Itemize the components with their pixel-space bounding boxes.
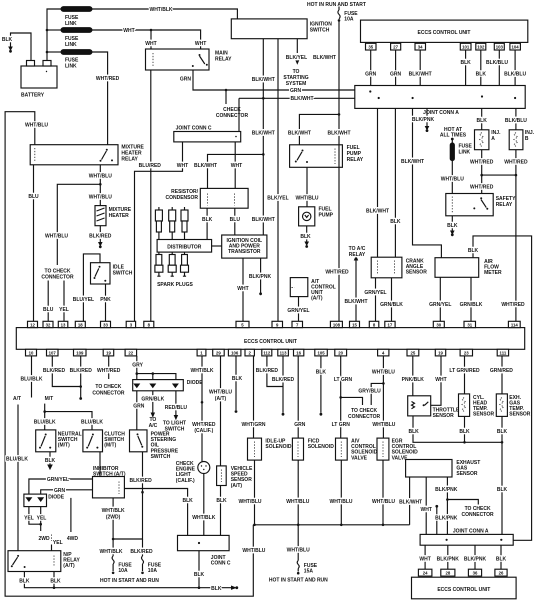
FICD solenoid box — [292, 438, 303, 460]
cyl head temp sensor box — [459, 394, 470, 417]
svg-text:WHT: WHT — [123, 28, 134, 34]
svg-text:BLU/YEL: BLU/YEL — [73, 297, 94, 303]
svg-text:WHT: WHT — [145, 41, 156, 47]
pin 3 main bar top — [126, 321, 135, 327]
svg-text:TO CHECK: TO CHECK — [44, 268, 70, 274]
svg-text:111: 111 — [500, 351, 507, 356]
pin 101 ECCS top — [460, 43, 471, 50]
exh gas temp sensor box — [496, 394, 507, 417]
diode pack 2 diodes D4 D5 — [26, 498, 43, 501]
svg-text:BLU/BLK: BLU/BLK — [81, 419, 103, 425]
fuel pump box — [299, 207, 315, 226]
A/T control unit box — [290, 278, 308, 297]
svg-text:103: 103 — [496, 45, 504, 50]
wire WHT/BLK 2WD inhibitor to fuse — [112, 498, 114, 556]
neutral switch box — [36, 430, 56, 452]
svg-text:33: 33 — [103, 322, 108, 327]
svg-text:BLK: BLK — [468, 248, 479, 254]
svg-text:JOINT CONN A: JOINT CONN A — [423, 110, 459, 116]
svg-text:CONDENSOR: CONDENSOR — [165, 195, 198, 201]
wire WHT/BLU mixture heater relay to heater — [99, 165, 101, 206]
svg-text:LINK: LINK — [65, 21, 77, 27]
wire BLK speed sensor to joint conn C lower — [220, 486, 222, 536]
svg-text:101: 101 — [462, 45, 470, 50]
idle switch box — [91, 263, 111, 284]
wire BLK joint conn A to crank sensor — [394, 108, 396, 257]
N/P relay contact — [11, 555, 26, 568]
svg-text:(M/T): (M/T) — [104, 443, 116, 449]
svg-text:108: 108 — [333, 322, 341, 327]
pin 9 main bar top — [272, 321, 283, 327]
svg-text:TO CHECK: TO CHECK — [95, 384, 121, 390]
svg-text:LT GRN: LT GRN — [334, 377, 353, 383]
svg-text:BLK: BLK — [300, 234, 311, 240]
fuse 10A symbol right — [142, 556, 144, 564]
svg-text:LT GRN: LT GRN — [332, 422, 351, 428]
pin 104 ECCS top — [510, 43, 521, 50]
neutral switch contact — [39, 434, 51, 449]
pin 34 ECCS top — [415, 43, 426, 50]
spark plug 2 — [168, 252, 176, 276]
svg-text:WHT/GRN: WHT/GRN — [242, 422, 266, 428]
node rail joint conn C — [198, 586, 201, 589]
svg-text:BLK/BLU: BLK/BLU — [505, 118, 527, 124]
svg-text:10A: 10A — [344, 16, 354, 22]
node battery riser fuse2 — [46, 29, 49, 32]
arrow to starting system — [296, 60, 299, 64]
svg-text:BLU: BLU — [28, 194, 39, 200]
pin 15 main bar top — [350, 321, 360, 327]
main relay contact — [192, 54, 208, 67]
wire WHT/BLU bus to fuse 15A — [297, 525, 299, 561]
svg-text:BLK/PNK: BLK/PNK — [412, 117, 435, 123]
svg-text:GRN: GRN — [390, 71, 402, 77]
svg-text:WHT/BLK: WHT/BLK — [190, 368, 213, 374]
pin 105 main bar bottom — [315, 349, 328, 356]
dot BLK pin 106 end — [235, 410, 238, 413]
node LT GRN branch — [339, 396, 342, 399]
wire WHT/BLU fuse link to safety relay — [451, 161, 453, 194]
wire WHT/BLK fuse link1 to ignition switch — [92, 9, 237, 19]
svg-text:BLK: BLK — [19, 578, 30, 584]
crank angle sensor box — [371, 257, 402, 278]
joint conn A lower box — [420, 534, 513, 545]
wire BLK resistor to distributor — [206, 208, 208, 239]
wire WHT/BLU AIV solenoid to bus — [340, 460, 342, 525]
svg-text:WHT/BLU: WHT/BLU — [45, 233, 68, 239]
wire GRN diode to power steering switch — [136, 391, 138, 430]
wire GRN/YEL diode2 to inhibitor — [29, 479, 93, 494]
svg-text:BLK: BLK — [316, 369, 327, 375]
battery — [21, 61, 57, 89]
wire BLK/WHT horizontal to joint conn A — [239, 97, 355, 99]
wire BLK/PNK joint conn A lower to pin 28 — [447, 545, 449, 569]
wire WHT/BLU ground bus — [253, 524, 409, 526]
svg-text:4WD: 4WD — [67, 536, 79, 542]
svg-text:WHT/RED: WHT/RED — [96, 76, 120, 82]
svg-text:28: 28 — [446, 571, 451, 576]
svg-text:WHT/BLU: WHT/BLU — [242, 548, 265, 554]
svg-text:RELAY: RELAY — [347, 157, 364, 163]
cyl head temp sensor element — [462, 398, 466, 412]
pin 4 main bar bottom — [378, 349, 389, 356]
wire BLK N/P relay ground left — [24, 572, 199, 588]
mixture heater box — [95, 206, 106, 226]
resistor/condenser internals — [207, 194, 209, 206]
svg-text:BLK: BLK — [2, 37, 13, 43]
svg-text:25: 25 — [411, 351, 416, 356]
wire fuse 10A hot in run — [338, 7, 340, 11]
svg-text:GRN/BLK: GRN/BLK — [380, 302, 403, 308]
wire GRN pin 35 to joint conn A — [370, 50, 372, 86]
svg-text:SENSOR: SENSOR — [433, 413, 455, 419]
svg-text:DIODE: DIODE — [48, 495, 64, 501]
svg-text:15: 15 — [352, 322, 357, 327]
svg-text:SWITCH: SWITCH — [113, 270, 133, 276]
pin 36 ECCS bottom — [468, 569, 481, 576]
svg-text:WHT/RED: WHT/RED — [504, 159, 528, 165]
pin 31 main bar top — [464, 321, 476, 327]
fuel pump relay coil — [334, 149, 336, 165]
svg-text:BLK/PNK: BLK/PNK — [249, 274, 272, 280]
svg-text:WHT: WHT — [419, 557, 430, 563]
svg-text:RELAY: RELAY — [121, 157, 138, 163]
svg-text:113: 113 — [280, 351, 288, 356]
wire GRY/BLU branch to check connector — [371, 383, 383, 405]
svg-text:ECCS CONTROL UNIT: ECCS CONTROL UNIT — [437, 587, 490, 593]
injector B box — [509, 130, 523, 150]
svg-text:GRN/YEL: GRN/YEL — [364, 290, 386, 296]
spark wire connector 2 — [169, 207, 176, 240]
svg-text:24: 24 — [423, 571, 428, 576]
svg-text:WHT/BLU: WHT/BLU — [25, 123, 48, 129]
wire BLK joint conn A to injector A — [481, 108, 483, 129]
svg-text:BLK: BLK — [476, 71, 487, 77]
wire BLK/BLU joint conn A to injector B — [515, 108, 517, 129]
dot fuse WHT/BLK end — [112, 572, 115, 575]
ground dot battery — [9, 47, 12, 53]
air flow meter box — [435, 258, 479, 278]
wire BLK/PNK ignition coil stub — [260, 258, 262, 292]
pin 16 main bar bottom — [294, 349, 304, 356]
svg-text:18: 18 — [78, 322, 83, 327]
svg-text:HOT IN START AND RUN: HOT IN START AND RUN — [269, 577, 328, 583]
wire LT GRN pin 20 to AIV solenoid — [340, 356, 342, 438]
svg-text:A: A — [491, 136, 495, 142]
wire WHT exhaust gas sensor to joint conn A lower — [425, 477, 427, 534]
wire BLK/WHT joint conn A to air flow meter — [413, 108, 442, 257]
fuel pump relay contact — [295, 150, 308, 164]
svg-text:CONNECTOR: CONNECTOR — [348, 414, 381, 420]
pin 12 main bar top — [28, 321, 38, 327]
mixture heater relay coil — [34, 148, 36, 162]
svg-text:BLU/RED: BLU/RED — [139, 163, 162, 169]
fuse 15A symbol — [297, 561, 299, 569]
idle-up solenoid coil — [254, 442, 256, 458]
svg-text:106: 106 — [231, 351, 239, 356]
wire BLK/WHT ignition switch to coil box — [262, 39, 264, 235]
pin 17 main bar top — [385, 321, 395, 327]
wire diode pack feed drop — [152, 374, 154, 380]
wire WHT/BLK fuse tail — [112, 564, 114, 571]
wire BLK N/P relay ground right — [53, 572, 55, 588]
main relay coil — [152, 53, 154, 67]
wire BLK/RED power steering switch down — [113, 452, 142, 539]
svg-text:YEL: YEL — [37, 515, 47, 521]
pin 25 main bar bottom — [407, 349, 419, 356]
svg-text:RELAY: RELAY — [496, 202, 513, 208]
svg-text:PNK/BLK: PNK/BLK — [402, 377, 425, 383]
svg-text:BLK/BLU: BLK/BLU — [486, 60, 508, 66]
wire BLK/RED pin 109 down — [80, 356, 82, 398]
svg-text:ECCS CONTROL UNIT: ECCS CONTROL UNIT — [418, 30, 471, 36]
svg-text:BLU: BLU — [230, 217, 241, 223]
svg-text:SENSOR: SENSOR — [406, 270, 428, 276]
svg-text:BLK/BLU: BLK/BLU — [504, 71, 526, 77]
svg-text:BLK: BLK — [182, 498, 193, 504]
wire BLK safety relay ground — [451, 216, 453, 232]
svg-text:BLK/YEL: BLK/YEL — [267, 195, 288, 201]
wire BLK cyl head temp sensor down — [464, 416, 466, 442]
wire WHT joint conn C to resistor box — [234, 142, 236, 189]
wire BLK exh gas temp sensor to joint conn A lower — [501, 416, 503, 534]
wire BLK/WHT branch to resistor box — [208, 154, 264, 188]
svg-text:A/C: A/C — [149, 423, 158, 429]
svg-text:BLK/RED: BLK/RED — [129, 478, 152, 484]
wire GRY pin 22 to diode pack — [136, 356, 138, 380]
clutch switch contact — [86, 434, 98, 449]
svg-text:WHT/BLK: WHT/BLK — [149, 7, 172, 13]
distributor box — [157, 240, 212, 253]
wire BLK/YEL ignition switch to pin 9 — [277, 39, 279, 322]
svg-text:BLK/RED: BLK/RED — [256, 368, 279, 374]
mixture heater relay contact — [100, 149, 114, 162]
wire BLK rail arrow segment — [199, 587, 233, 589]
svg-text:109: 109 — [76, 351, 84, 356]
node diode pack feed — [136, 372, 139, 375]
throttle sensor internals — [412, 402, 429, 409]
arrow to A/C relay up — [355, 257, 358, 261]
wire YEL check connector to pin 13 — [63, 281, 65, 322]
wire YEL to N/P relay — [51, 545, 53, 551]
mixture heater element hatch — [97, 208, 105, 221]
wire BLK throttle sensor ground bus — [413, 416, 502, 442]
wire fuse link hot at all times — [451, 140, 453, 144]
svg-text:BLK/WHT: BLK/WHT — [288, 131, 311, 137]
A/T control unit mark — [292, 287, 295, 289]
svg-text:BLK: BLK — [447, 223, 458, 229]
svg-text:104: 104 — [512, 45, 520, 50]
svg-text:32: 32 — [46, 322, 51, 327]
svg-text:SPARK PLUGS: SPARK PLUGS — [157, 282, 193, 288]
svg-text:CONNECTOR: CONNECTOR — [216, 113, 249, 119]
wire YEL diode2 left down — [29, 507, 41, 525]
svg-text:PNK: PNK — [100, 297, 111, 303]
svg-text:BLK: BLK — [477, 118, 488, 124]
ground dot fuel pump — [305, 242, 308, 248]
ECCS control unit main bar — [16, 328, 524, 350]
node BLK temp sensor bus — [463, 441, 466, 444]
svg-text:10: 10 — [29, 351, 34, 356]
dot fuse 15A end — [297, 572, 300, 575]
svg-text:WHT/BLU: WHT/BLU — [209, 389, 232, 395]
svg-text:(A/T): (A/T) — [231, 483, 243, 489]
wire WHT/BLU pin 4 to EGR solenoid — [382, 356, 384, 438]
svg-text:CONNECTOR: CONNECTOR — [41, 275, 74, 281]
arrow RED/BLU to light switch — [174, 416, 177, 420]
svg-text:BLK: BLK — [232, 376, 243, 382]
svg-text:BLK: BLK — [460, 60, 471, 66]
vehicle speed sensor mark — [220, 470, 222, 483]
wire GRN diode2 to inhibitor — [41, 490, 93, 494]
svg-text:WHT/BLU: WHT/BLU — [286, 499, 309, 505]
fuse link FL3 — [61, 50, 92, 55]
wire BLK joint conn C lower to rail — [198, 551, 200, 588]
wire BLK/WHT joint conn A to crank sensor — [377, 108, 379, 257]
svg-text:VALVE: VALVE — [392, 455, 409, 461]
svg-text:DIODE: DIODE — [187, 380, 204, 386]
svg-text:ECCS CONTROL UNIT: ECCS CONTROL UNIT — [244, 339, 297, 345]
svg-text:SOLENOID: SOLENOID — [265, 444, 292, 450]
FICD solenoid coil — [297, 442, 299, 458]
svg-text:DISTRIBUTOR: DISTRIBUTOR — [167, 244, 201, 250]
svg-text:WHT/BLU: WHT/BLU — [441, 176, 464, 182]
svg-text:105: 105 — [318, 351, 326, 356]
idle switch contact — [94, 266, 107, 282]
svg-text:VALVE: VALVE — [351, 455, 368, 461]
pin 102 ECCS top — [476, 43, 486, 50]
wire BLU resistor to ignition coil — [234, 208, 236, 235]
svg-text:BLK/WHT: BLK/WHT — [327, 131, 350, 137]
svg-text:SWITCH (A/T): SWITCH (A/T) — [93, 472, 126, 478]
wire YEL variant dotted — [51, 535, 53, 542]
svg-text:WHT/RED: WHT/RED — [470, 185, 494, 191]
pin 8 main bar top — [144, 321, 154, 327]
AIV control solenoid valve box — [336, 438, 348, 460]
safety relay contact — [473, 197, 488, 209]
wire BLK/WHT fuse to pin 108 — [338, 20, 340, 321]
svg-text:BLK: BLK — [211, 586, 222, 592]
svg-text:CONN C: CONN C — [211, 561, 231, 567]
pin 108 main bar top — [330, 321, 342, 327]
svg-text:BLU/BLK: BLU/BLK — [34, 419, 56, 425]
ignition switch U1 — [231, 19, 307, 39]
wire GRN/YEL A/T control unit to pin 7 — [298, 297, 300, 322]
joint conn A lower dots — [446, 539, 503, 541]
svg-text:WHT/BLU: WHT/BLU — [238, 499, 261, 505]
node WHT main relay coil — [150, 29, 153, 32]
main relay box — [146, 49, 210, 70]
svg-text:YEL: YEL — [59, 307, 69, 313]
spark plug 1 — [155, 252, 163, 276]
svg-text:WHT: WHT — [421, 507, 432, 513]
wire BLK/PNK branch to check connector — [447, 500, 478, 505]
svg-text:BLK/WHT: BLK/WHT — [252, 217, 275, 223]
svg-text:WHT/RED: WHT/RED — [470, 159, 494, 165]
svg-text:BLK/PNK: BLK/PNK — [435, 487, 458, 493]
node BLK/WHT ignition — [262, 97, 265, 100]
svg-text:BLK: BLK — [45, 458, 56, 464]
spark wire connector 3 — [181, 207, 188, 240]
svg-text:BLK/RED: BLK/RED — [272, 377, 295, 383]
wire BLU relay to pin 12 — [33, 165, 35, 321]
svg-text:WHT/BLU: WHT/BLU — [372, 369, 395, 375]
diode pack diodes D1 D2 D3 — [134, 384, 178, 387]
svg-text:GRY/BLU: GRY/BLU — [358, 388, 381, 394]
svg-text:BLU/BLK: BLU/BLK — [6, 456, 28, 462]
svg-text:23: 23 — [464, 351, 469, 356]
svg-text:GRN/YEL: GRN/YEL — [47, 477, 69, 483]
svg-text:31: 31 — [467, 322, 472, 327]
ignition coil and power transistor box — [222, 235, 267, 258]
wire BLU/BLK A/T branch to N/P relay — [17, 405, 19, 551]
wire BLU check connector to pin 32 — [47, 281, 49, 322]
svg-text:BLK/RED: BLK/RED — [89, 233, 112, 239]
pin 5 main bar top — [236, 321, 249, 327]
wire WHT/BLU fuse 15A tail — [297, 569, 299, 572]
wire WHT/BLU FICD solenoid to bus — [297, 460, 299, 525]
ECCS control unit bottom-right box — [412, 577, 517, 599]
AIV solenoid coil — [340, 442, 342, 458]
wire GRN stub to check connector — [225, 90, 227, 104]
svg-text:20: 20 — [338, 351, 343, 356]
wire fuse link 2 lead — [47, 29, 61, 31]
svg-text:BLK/WHT: BLK/WHT — [290, 96, 313, 102]
wire LT GRN branch to check connector — [341, 397, 363, 405]
svg-text:WHT/BLU: WHT/BLU — [372, 422, 395, 428]
wire GRN/BLK diode to A/C — [152, 391, 154, 414]
svg-text:GRN: GRN — [294, 422, 306, 428]
pin 35 ECCS top — [366, 43, 377, 50]
svg-text:BLK: BLK — [408, 429, 419, 435]
pin 20 main bar bottom — [335, 349, 347, 356]
svg-text:CONNECTOR: CONNECTOR — [462, 512, 495, 518]
pin 19 main bar bottom — [435, 349, 445, 356]
node bus FICD — [297, 524, 300, 527]
svg-text:BLK: BLK — [497, 487, 508, 493]
svg-text:GRN/BLK: GRN/BLK — [460, 302, 483, 308]
svg-text:GRN/RED: GRN/RED — [490, 368, 513, 374]
wire WHT/BLU ground loop left side and bottom — [5, 112, 253, 597]
wire LT GRN/RED pin 23 to cyl head temp sensor — [464, 356, 466, 394]
wire BLK/YEL to starting system — [296, 39, 298, 53]
node BLK exh gas bus — [501, 441, 504, 444]
safety relay box — [446, 194, 493, 216]
wire WHT/BLU branch to check connector — [57, 184, 100, 265]
svg-text:34: 34 — [418, 45, 423, 50]
wire BLK/RED mixture heater ground — [99, 226, 101, 243]
dot fuse 10A top — [338, 19, 341, 22]
svg-text:(A/T): (A/T) — [311, 295, 323, 301]
svg-text:BLU: BLU — [43, 307, 54, 313]
svg-text:WHT: WHT — [195, 41, 206, 47]
diode box (2-diode pack) — [24, 494, 47, 507]
svg-text:WHT/BLK: WHT/BLK — [99, 549, 122, 555]
svg-text:13: 13 — [61, 322, 66, 327]
node battery riser fuse3 — [46, 51, 49, 54]
svg-text:GRN: GRN — [290, 88, 302, 94]
svg-text:TO CHECK: TO CHECK — [351, 408, 377, 414]
svg-text:WHT/RED: WHT/RED — [97, 368, 121, 374]
svg-text:YEL: YEL — [24, 515, 34, 521]
fuse link FL2 — [61, 28, 92, 33]
pin 18 main bar top — [75, 321, 85, 327]
pin 13 main bar top — [58, 321, 68, 327]
wire BLK/WHT exhaust gas sensor to bus — [409, 477, 411, 525]
svg-text:WHT: WHT — [237, 286, 248, 292]
fuse link FL4 — [450, 143, 454, 161]
wire BLK/WHT pin 34 to joint conn A — [419, 50, 421, 86]
